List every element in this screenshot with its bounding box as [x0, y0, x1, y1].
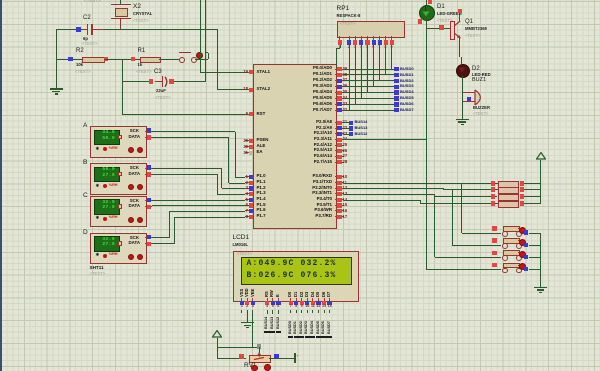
sensor B (SHT11): [83, 160, 87, 167]
ground (buttons): [534, 287, 547, 288]
node: RV1 interactive dots: [251, 365, 258, 371]
wire: P3.3 to pull-up row3: [344, 194, 435, 195]
wire: sensor A DATA to P1.1: [152, 137, 229, 138]
sensor C pin SCK: [145, 200, 152, 201]
wire: sensor D SCK to P1.6: [152, 237, 169, 238]
push button 4 with series resistor: [426, 269, 501, 270]
LCD screen: [241, 257, 352, 285]
wire: LCD VSS stub: [241, 310, 242, 314]
node: button 4 interactive dot: [519, 263, 526, 270]
wire: RP1 pin 6 pull-up to P0.3: [373, 45, 374, 87]
wire: RP1 pin 4 pull-up to P0.5: [361, 45, 362, 99]
wire: buzzer to ground: [462, 92, 463, 119]
node: button 3 net marker: [524, 255, 528, 259]
LCD pin D6: [322, 292, 326, 297]
wire: XTAL row y=29 right segment: [104, 29, 217, 30]
wire: P0.7 to bus label: [344, 110, 395, 111]
buzzer BUZ1: [472, 78, 486, 84]
transistor Q1: [450, 21, 455, 40]
LED D1 (green): [419, 5, 435, 21]
MCU pin 10 P3.0/RXD (right): [335, 176, 344, 177]
window border left edge: [0, 0, 2, 371]
node: D1 cathode marker: [418, 19, 423, 24]
RP1 pin 1: [339, 36, 340, 41]
wire: RP1 pin 2 pull-up to P0.7: [349, 45, 350, 111]
wire: P0.6 to bus label: [344, 104, 395, 105]
wire: sensor D DATA to P1.7: [152, 243, 175, 244]
push button 1 with series resistor: [462, 233, 502, 234]
node: net label BUSD6: [394, 102, 398, 106]
MCU pin 23 P2.2/A10 (right): [335, 133, 344, 134]
wire: LCD D3 stub + net label BUSD3: [307, 310, 308, 314]
ground (left rail): [50, 88, 63, 89]
MCU pin 21 P2.0/A8 (right): [335, 122, 344, 123]
wire: P3.1 to pull-up resistor row1: [344, 183, 498, 184]
wire: wiper drop: [259, 347, 260, 352]
wire: LCD D5 stub + net label BUSD5: [318, 310, 319, 314]
wire: RST row: [122, 114, 245, 115]
resistor pack RP1 RESPACK-8: [337, 6, 350, 13]
RP1 pin 6: [373, 36, 374, 41]
MCU pin 29 PSEN (left): [245, 140, 253, 141]
wire: LCD D1 stub + net label BUSD1: [296, 310, 297, 314]
wire: RST node vertical: [122, 59, 123, 114]
node: RV1 left pin marker: [239, 354, 244, 359]
resistor R1 1k: [140, 57, 161, 63]
wire: pull-up row2 to +5V rail: [524, 189, 540, 190]
wire: P2.1 to net label: [344, 128, 350, 129]
LCD pin D0: [288, 292, 292, 297]
MCU pin 5 P1.4 (left): [245, 199, 253, 200]
sensor B pin DATA: [145, 174, 152, 175]
wire: RP1 pin 3 pull-up to P0.6: [355, 45, 356, 105]
sensor A pin DATA: [145, 137, 152, 138]
capacitor C3 22uF: [155, 81, 163, 82]
LCD pin D4: [311, 292, 315, 297]
wire: vertical from top to C3 row: [205, 0, 206, 81]
LCD pin D2: [300, 292, 304, 297]
node: junction marker (gray): [257, 344, 262, 349]
RP1 pin 9: [391, 36, 392, 41]
MCU pin 18 XTAL2 (left): [245, 89, 253, 90]
MCU pin 12 P3.2/INT0 (right): [335, 188, 344, 189]
LCD pin D1: [294, 292, 298, 297]
MCU 8051 body: [253, 64, 337, 229]
resistor pull-up row1: [491, 181, 495, 185]
wire: +5V to RV1 left: [217, 358, 246, 359]
wire: Q1 collector up: [459, 13, 460, 21]
RP1 pin 7: [379, 36, 380, 41]
push button (reset): [179, 52, 191, 54]
wire: LCD VDD to ground: [247, 310, 248, 323]
MCU pin 9 RST (left): [245, 114, 253, 115]
MCU pin 33 P0.6/AD6 (right): [335, 104, 344, 105]
MCU pin 14 P3.4/T0 (right): [335, 199, 344, 200]
wire: RP1 pin1 to P0.0 row: [340, 45, 341, 49]
node: button 3 interactive dot: [519, 251, 526, 258]
sensor C pin DATA: [145, 206, 152, 207]
wire: R2 to R1: [104, 59, 140, 60]
MCU pin 4 P1.3 (left): [245, 193, 253, 194]
node: R2 left net marker: [68, 57, 73, 62]
wire: button 2 to ground rail: [529, 245, 541, 246]
node: C3 right pin marker: [169, 79, 174, 84]
wire: P0.1 to bus label: [344, 74, 395, 75]
MCU pin 22 P2.1/A9 (right): [335, 128, 344, 129]
MCU pin 25 P2.4/A12 (right): [335, 145, 344, 146]
LCD LCD1 LM016L: [233, 235, 250, 242]
wire: C3 row left: [122, 81, 149, 82]
node: net label BUSD2: [394, 79, 398, 83]
node: net label BUSD5: [394, 96, 398, 100]
wire: LCD RW stub + net label BUS13: [272, 310, 273, 314]
LCD pin D7: [327, 292, 331, 297]
power +5V terminal (pull-up rail): [536, 152, 546, 160]
sensor C (SHT11): [83, 193, 88, 200]
MCU pin 26 P2.5/A13 (right): [335, 150, 344, 151]
LCD pin VSS: [240, 289, 244, 297]
potentiometer RV1: [249, 355, 271, 364]
MCU pin 28 P2.7/A15 (right): [335, 162, 344, 163]
wire: vertical from top to XTAL1: [200, 0, 201, 72]
MCU pin 13 P3.3/INT1 (right): [335, 193, 344, 194]
MCU pin 3 P1.2 (left): [245, 188, 253, 189]
wire: sensor A SCK to P1.0: [152, 131, 235, 132]
resistor pull-up row4: [491, 201, 495, 205]
LCD pin E: [276, 294, 280, 297]
node: net label BUS13: [349, 126, 353, 130]
node: net label BUS12: [349, 132, 353, 136]
ground (LCD): [241, 322, 254, 323]
MCU pin 11 P3.1/TXD (right): [335, 182, 344, 183]
MCU pin 24 P2.3/A11 (right): [335, 139, 344, 140]
sensor D (SHT11): [83, 230, 88, 237]
wire: D2 to buzzer: [462, 76, 463, 92]
wire: +5V branch to VEE: [217, 347, 259, 348]
wire: RP1 pin 9 pull-up to P0.0: [391, 45, 392, 69]
wire: RV1 right to terminal: [269, 358, 295, 359]
node: C3 left pin marker: [149, 79, 154, 84]
wire: LCD D6 stub + net label BUSD6: [324, 310, 325, 314]
wire: P2.2 to net label: [344, 134, 350, 135]
node: buzzer pin marker: [467, 97, 471, 101]
wire: R1 to reset button: [159, 59, 179, 60]
wire: pull-up row1 to +5V rail: [524, 183, 540, 184]
sensor D pin SCK: [145, 237, 152, 238]
node: button interactive dot: [196, 52, 204, 60]
resistor R2 10k: [82, 57, 105, 63]
MCU pin 2 P1.1 (left): [245, 182, 253, 183]
wire: P0.4 to bus label: [344, 92, 395, 93]
MCU pin 34 P0.5/AD5 (right): [335, 98, 344, 99]
sensor A pin SCK: [145, 131, 152, 132]
MCU pin 39 P0.0/AD0 (right): [335, 69, 344, 70]
node: button 2 interactive dot: [519, 239, 526, 246]
MCU pin 27 P2.6/A14 (right): [335, 156, 344, 157]
wire: sensor B DATA to P1.3: [152, 174, 217, 175]
LCD pin D3: [305, 292, 309, 297]
LCD pin RW: [270, 290, 274, 297]
wire: XTAL2 vertical and row: [217, 29, 218, 90]
MCU pin 38 P0.1/AD1 (right): [335, 74, 344, 75]
wire: Q1 emitter to D2: [459, 38, 460, 57]
MCU pin 8 P1.7 (left): [245, 216, 253, 217]
wire: top partial label: [84, 0, 101, 4]
wire: P3.2 to pull-up row2: [344, 188, 444, 189]
wire: button 1 to ground rail: [529, 233, 541, 234]
LCD pin VDD: [245, 289, 249, 298]
wire: LCD D0 stub + net label BUSD0: [290, 310, 291, 314]
LCD pin RS: [265, 292, 269, 298]
wire: LCD D7 stub + net label BUSD7: [329, 310, 330, 314]
MCU pin 1 P1.0 (left): [245, 176, 253, 177]
MCU pin 31 EA (left): [245, 152, 253, 153]
wire: P2.3 net down to button 4 (joins Q1 base net): [344, 139, 427, 140]
wire: button right jog: [195, 59, 208, 60]
wire: LCD D4 stub + net label BUSD4: [312, 310, 313, 314]
push button 2 with series resistor: [452, 245, 501, 246]
node: button 1 interactive dot: [519, 227, 526, 234]
wire: P3.4 to pull-up row4: [344, 200, 421, 201]
wire: sensor C SCK to P1.4: [152, 200, 245, 201]
node: button 2 net marker: [524, 243, 528, 247]
MCU pin 16 P3.6/WR (right): [335, 210, 344, 211]
node: Q1 base marker: [439, 25, 444, 30]
MCU pin 17 P3.7/RD (right): [335, 216, 344, 217]
wire: P0.3 to bus label: [344, 86, 395, 87]
MCU pin 37 P0.2/AD2 (right): [335, 80, 344, 81]
node: net label BUSD4: [394, 90, 398, 94]
sensor A (SHT11): [83, 123, 87, 130]
wire: LCD D2 stub + net label BUSD2: [301, 310, 302, 314]
node: net label BUSD0: [394, 67, 398, 71]
wire: button column verticals: [461, 184, 462, 234]
node: RV1 right net marker: [274, 354, 279, 359]
wire: pull-up row3 to +5V rail: [524, 196, 540, 197]
sensor B pin SCK: [145, 168, 152, 169]
wire: RP1 pin 7 pull-up to P0.2: [379, 45, 380, 81]
MCU pin 32 P0.7/AD7 (right): [335, 110, 344, 111]
node: marker above D1: [428, 0, 433, 4]
MCU pin 35 P0.4/AD4 (right): [335, 92, 344, 93]
wire: pull-up row4 to +5V rail: [524, 203, 540, 204]
wire: P0.0 to bus label: [344, 69, 395, 70]
MCU pin 19 XTAL1 (left): [245, 72, 253, 73]
wire: RP1 pin 8 pull-up to P0.1: [385, 45, 386, 75]
node: R2 right pin marker: [104, 57, 109, 62]
node: net label BUSD3: [394, 85, 398, 89]
capacitor C2: [87, 24, 88, 35]
wire: D1 anode from top: [426, 0, 427, 5]
node: button 4 net marker: [524, 267, 528, 271]
wire: LCD VEE down: [252, 310, 253, 348]
wire: D1 to Q1 base: [426, 19, 427, 29]
RP1 pin 3: [355, 36, 356, 41]
wire: reset row y=59: [56, 59, 82, 60]
LCD pin VEE: [251, 289, 255, 297]
wire: P2.0 to net label: [344, 122, 350, 123]
wire: button 4 to ground rail: [529, 269, 541, 270]
wire: sensor C DATA to P1.5: [152, 205, 245, 206]
wire: left rail vertical: [56, 29, 57, 89]
MCU pin 36 P0.3/AD3 (right): [335, 86, 344, 87]
terminal (default): [294, 353, 296, 363]
wire: P0.2 to bus label: [344, 80, 395, 81]
power +5V terminal (LCD/RV1): [212, 330, 222, 338]
node: button 1 net marker: [524, 230, 528, 234]
RP1 pin 4: [361, 36, 362, 41]
node: net label BUSD1: [394, 73, 398, 77]
push button 3 with series resistor: [435, 257, 502, 258]
RP1 pin 2: [349, 36, 350, 41]
crystal X2: [120, 0, 121, 5]
MCU pin 30 ALE (left): [245, 146, 253, 147]
wire: button ground rail: [540, 233, 541, 287]
wire: XTAL1 row: [200, 72, 245, 73]
ground (buzzer): [456, 119, 469, 120]
MCU pin 6 P1.5 (left): [245, 205, 253, 206]
wire: net XTAL row y=29 left segment: [56, 29, 86, 30]
wire: sensor B SCK to P1.2: [152, 168, 222, 169]
node: R1 left pin marker: [131, 57, 136, 62]
LED D2 (red): [456, 64, 471, 79]
LCD pin D5: [316, 292, 320, 297]
RP1 pin 8: [385, 36, 386, 41]
MCU pin 15 P3.5/T1 (right): [335, 205, 344, 206]
wire: RP1 pin 5 pull-up to P0.4: [367, 45, 368, 93]
RP1 pin 5: [367, 36, 368, 41]
wire: C3 row right: [174, 81, 206, 82]
node: C2 left net label marker: [76, 27, 81, 32]
sensor D part label SHT11: [90, 266, 104, 271]
wire: LCD RS stub + net label BUS14: [267, 310, 268, 314]
sensor D pin DATA: [145, 243, 152, 244]
resistor pull-up row2: [491, 187, 495, 191]
wire: P0.5 to bus label: [344, 98, 395, 99]
wire: button 3 to ground rail: [529, 257, 541, 258]
node: net label BUS14: [349, 121, 353, 125]
wire: LCD E stub + net label BUS12: [278, 310, 279, 314]
resistor pull-up row3: [491, 194, 495, 198]
node: net label BUSD7: [394, 108, 398, 112]
MCU pin 7 P1.6 (left): [245, 210, 253, 211]
